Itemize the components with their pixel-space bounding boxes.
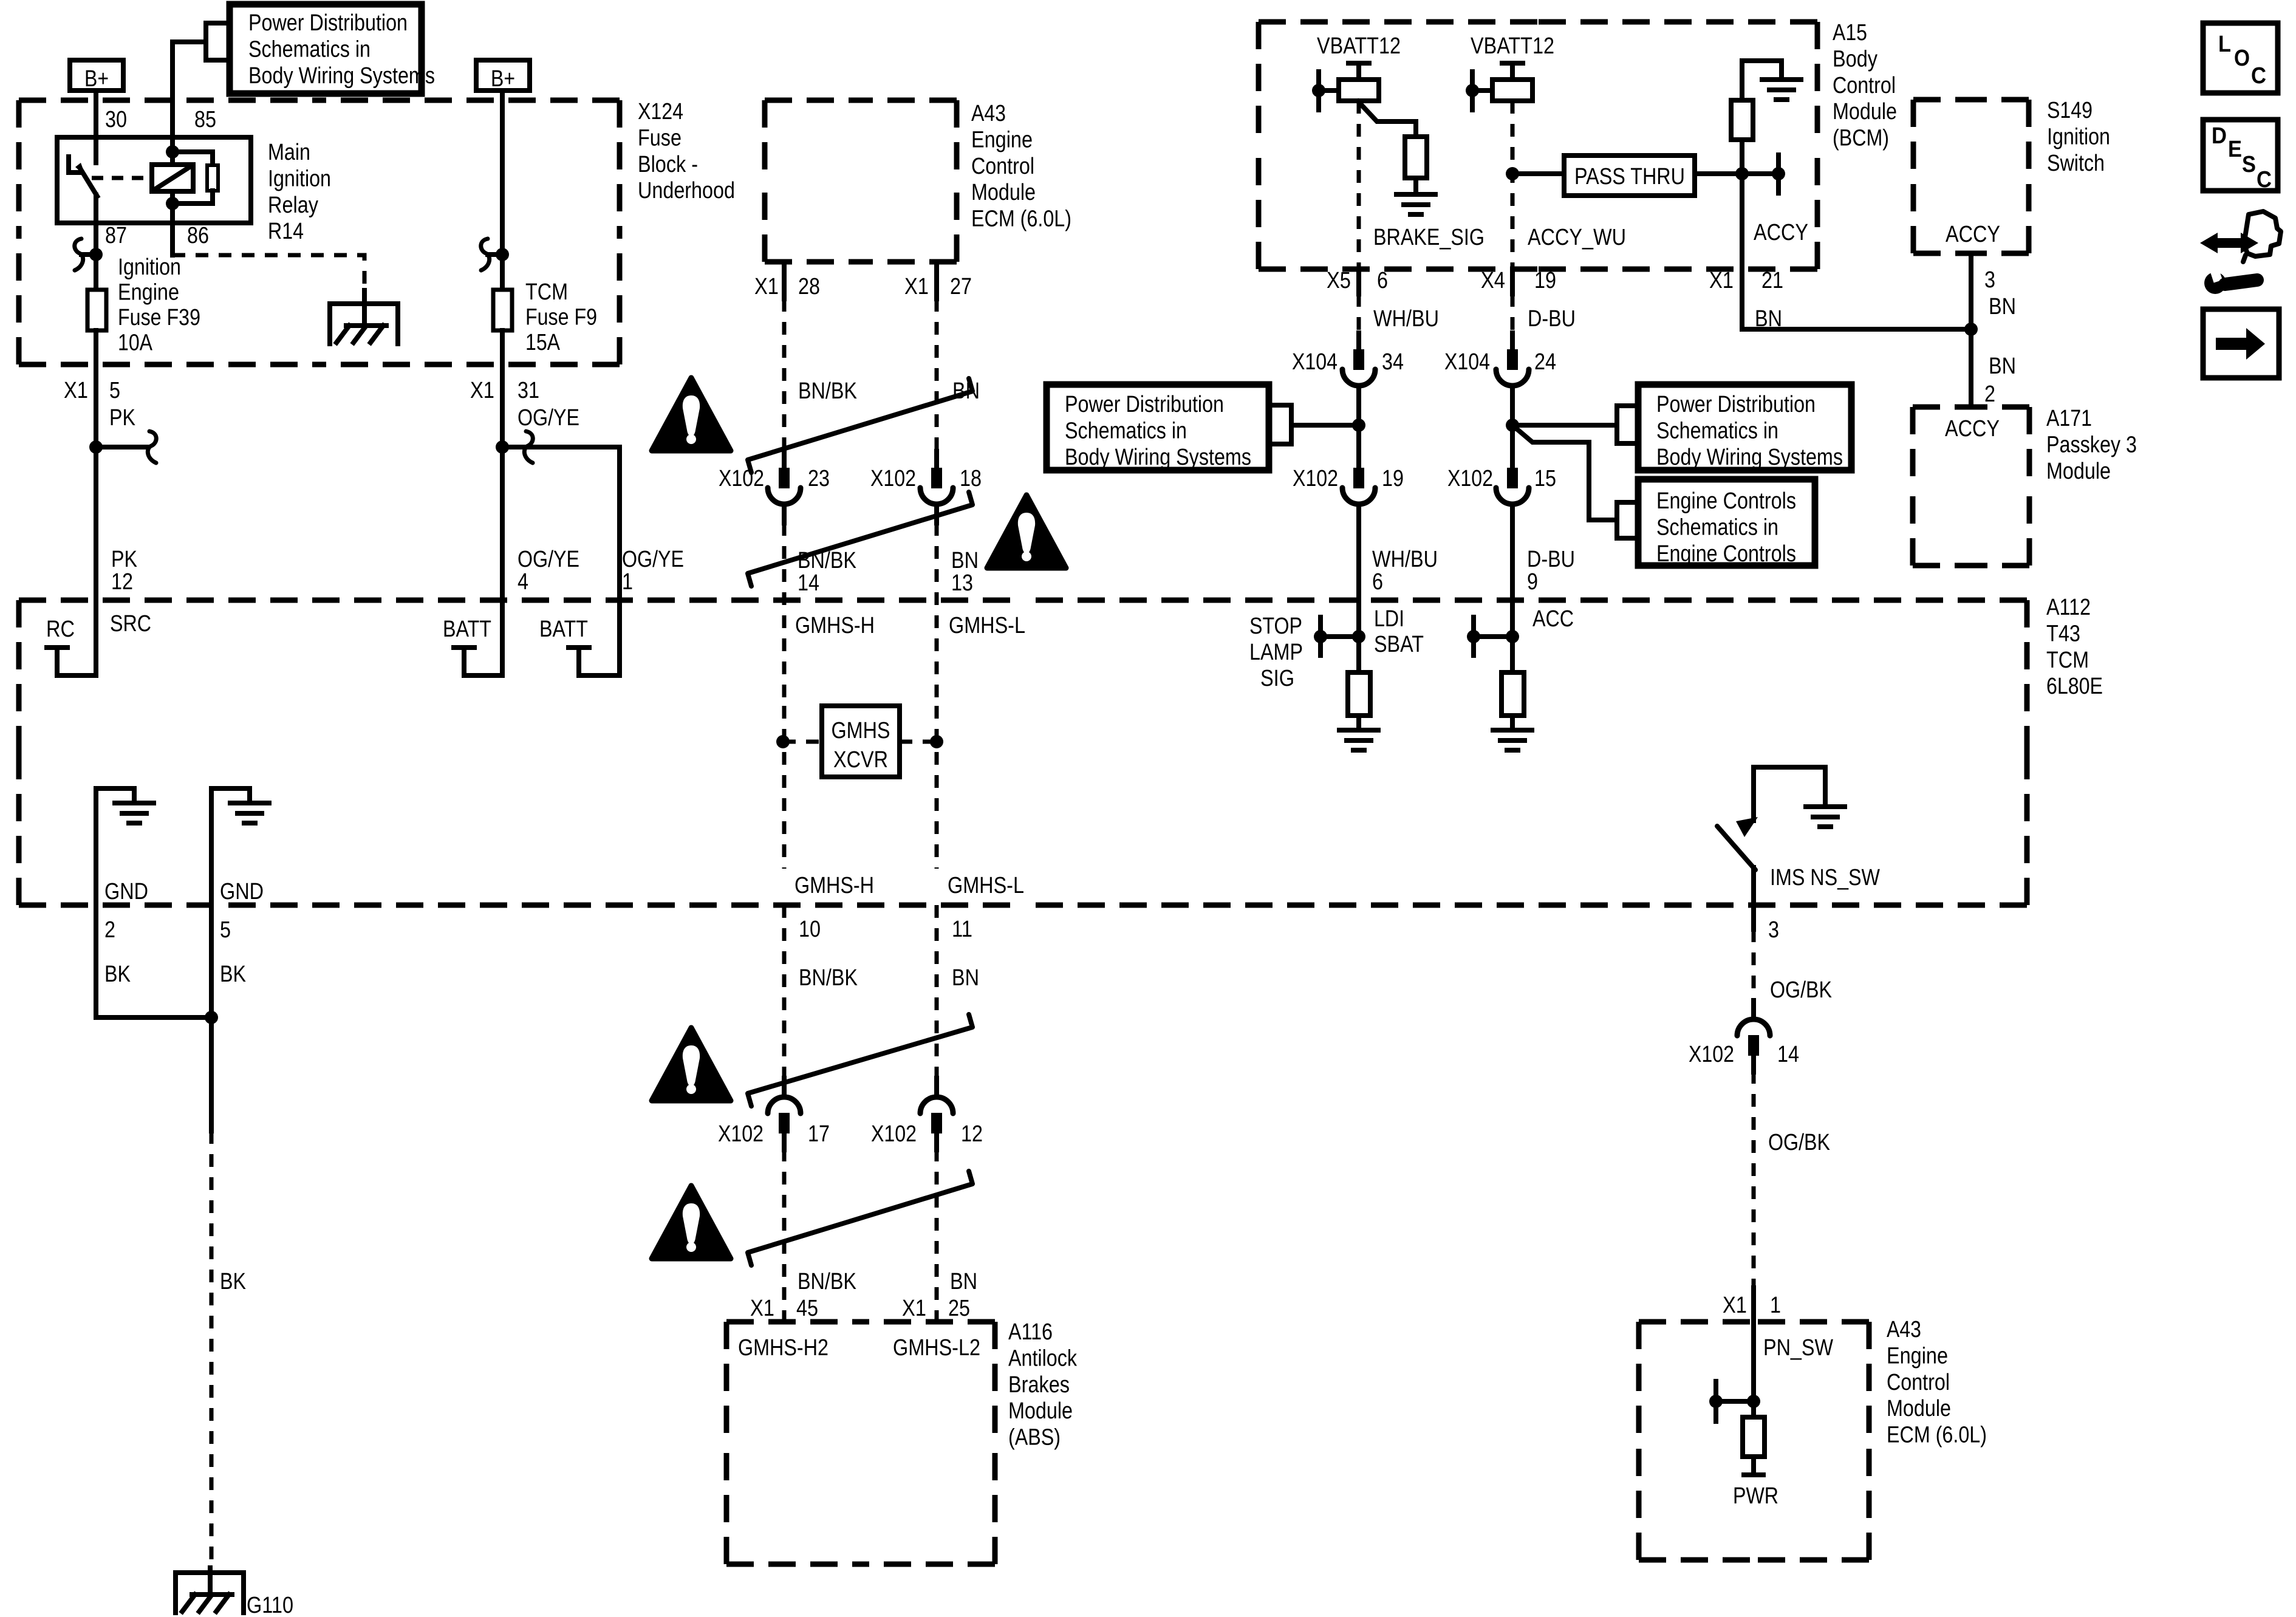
svg-text:13: 13 xyxy=(951,570,973,596)
pin label X1 27 xyxy=(904,274,972,299)
wire label BN (mid) xyxy=(952,965,979,991)
label A171 Passkey 3 Module xyxy=(2046,406,2137,484)
svg-text:Body Wiring Systems: Body Wiring Systems xyxy=(248,63,435,89)
svg-text:Engine Controls: Engine Controls xyxy=(1656,541,1796,567)
ECM A43 dashed box (lower) xyxy=(1639,1322,1869,1560)
svg-text:X102: X102 xyxy=(1689,1042,1734,1067)
pin label X1 25 xyxy=(902,1296,970,1321)
svg-text:Ignition: Ignition xyxy=(2047,124,2110,149)
svg-text:A112: A112 xyxy=(2046,595,2091,620)
in-line connector X102 15 xyxy=(1496,451,1529,523)
junction ACC xyxy=(1506,630,1519,643)
svg-text:11: 11 xyxy=(952,917,972,942)
go-to arrow icon xyxy=(2203,309,2279,378)
svg-text:Module: Module xyxy=(2046,459,2111,484)
svg-text:S149: S149 xyxy=(2047,98,2093,123)
wire OG/YE branch to BATT2 xyxy=(502,447,620,675)
wire LDI resistor to ground xyxy=(1356,716,1361,728)
pin label X102 17 xyxy=(718,1121,830,1147)
svg-text:5: 5 xyxy=(109,378,120,403)
pin label X102 23 xyxy=(719,466,830,491)
wire label D-BU (upper) xyxy=(1528,306,1576,332)
fuse F9 xyxy=(493,290,512,330)
splice clip at fuse F39 xyxy=(81,252,96,257)
svg-text:(BCM): (BCM) xyxy=(1833,126,1889,151)
junction STOP LAMP tap xyxy=(1314,630,1327,643)
pin label X104 34 xyxy=(1292,349,1404,375)
pin label X104 24 xyxy=(1444,349,1556,375)
svg-text:ACCY: ACCY xyxy=(1754,220,1808,245)
svg-text:T43: T43 xyxy=(2046,621,2080,646)
twisted-pair slash third xyxy=(748,1014,972,1106)
resistor (PN_SW) xyxy=(1743,1401,1765,1457)
bracket engine controls box xyxy=(1512,425,1638,538)
ECM A43 dashed box xyxy=(765,100,957,262)
svg-text:PN_SW: PN_SW xyxy=(1763,1335,1833,1361)
svg-text:X102: X102 xyxy=(718,1121,764,1147)
svg-text:Fuse F39: Fuse F39 xyxy=(118,305,200,330)
earth ground (BRAKE_SIG) xyxy=(1396,194,1435,214)
wire label PK 12 xyxy=(111,547,137,595)
junction LDI xyxy=(1352,630,1365,643)
svg-text:X102: X102 xyxy=(1293,466,1338,491)
svg-text:BK: BK xyxy=(104,962,131,987)
node ACC xyxy=(1532,606,1574,632)
wire BK join xyxy=(96,1015,211,1020)
svg-text:18: 18 xyxy=(960,466,982,491)
node LDI SBAT xyxy=(1374,606,1424,657)
wire ACCY inside BCM down xyxy=(1740,174,1744,269)
svg-text:6: 6 xyxy=(1372,569,1383,595)
svg-text:BN/BK: BN/BK xyxy=(799,965,858,991)
note box: Power Distribution Schematics in Body Wiring Systems (top) xyxy=(230,4,435,94)
wire GMHS-H from ECM pin 28 xyxy=(782,262,787,451)
pin label 3 (S149) xyxy=(1984,267,1995,293)
wire GMHS-L to ABS xyxy=(935,1149,939,1322)
svg-text:BK: BK xyxy=(220,1269,246,1294)
chassis ground G110 xyxy=(176,1568,244,1613)
svg-text:27: 27 xyxy=(950,274,972,299)
svg-text:VBATT12: VBATT12 xyxy=(1317,33,1401,59)
svg-text:GND: GND xyxy=(220,879,264,904)
svg-text:23: 23 xyxy=(808,466,830,491)
svg-text:Power Distribution: Power Distribution xyxy=(1656,392,1816,417)
svg-text:Switch: Switch xyxy=(2047,151,2105,176)
svg-text:Schematics in: Schematics in xyxy=(1065,418,1187,443)
fuse block X124 dashed box xyxy=(19,100,620,364)
svg-text:17: 17 xyxy=(808,1121,830,1147)
wire PK fuse F39 to TCM xyxy=(47,330,96,675)
svg-text:6: 6 xyxy=(1377,268,1388,293)
svg-text:10A: 10A xyxy=(118,330,153,356)
resistor (BRAKE_SIG pull) xyxy=(1405,137,1427,178)
svg-text:X1: X1 xyxy=(1709,268,1734,293)
svg-text:Engine Controls: Engine Controls xyxy=(1656,488,1796,514)
earth ground GND5 xyxy=(230,803,269,823)
svg-text:A15: A15 xyxy=(1833,20,1867,46)
svg-text:14: 14 xyxy=(1777,1042,1799,1067)
svg-text:X104: X104 xyxy=(1292,349,1338,375)
junction ACC tap xyxy=(1467,630,1480,643)
node GMHS-H (TCM top) xyxy=(795,613,875,638)
B+ terminal box 1 xyxy=(70,60,123,92)
junction D-BU note xyxy=(1506,419,1519,432)
B+ terminal box 2 xyxy=(476,60,530,92)
svg-text:GMHS-L: GMHS-L xyxy=(948,873,1024,898)
relay switch contact wire pin30 xyxy=(94,137,98,163)
wire BRAKE_SIG inside BCM xyxy=(1357,101,1361,269)
svg-text:Block -: Block - xyxy=(638,152,698,177)
wire relay pin 85 up xyxy=(170,42,175,137)
svg-text:2: 2 xyxy=(1984,381,1995,407)
svg-text:14: 14 xyxy=(798,570,819,596)
svg-text:ACCY: ACCY xyxy=(1945,416,2000,442)
svg-text:Module: Module xyxy=(1833,99,1897,125)
note box: Engine Controls Schematics xyxy=(1638,479,1815,567)
earth ground (IMS) xyxy=(1806,807,1845,827)
svg-text:GMHS-H: GMHS-H xyxy=(794,873,874,898)
relay fixed contact xyxy=(69,157,86,176)
svg-text:15: 15 xyxy=(1534,466,1556,491)
wire GMHS-L from ECM pin 27 xyxy=(934,262,939,451)
svg-text:X4: X4 xyxy=(1481,268,1505,293)
svg-text:24: 24 xyxy=(1534,349,1556,375)
TCM GND wire 2 xyxy=(96,788,134,1017)
wire label BN/BK (ECM) xyxy=(798,378,857,404)
svg-text:D: D xyxy=(2212,123,2227,149)
svg-text:B+: B+ xyxy=(491,66,515,92)
svg-text:D-BU: D-BU xyxy=(1528,306,1576,332)
svg-text:Ignition: Ignition xyxy=(118,255,181,280)
svg-text:GMHS-H2: GMHS-H2 xyxy=(738,1335,829,1361)
label X124 Fuse Block - Underhood xyxy=(638,99,735,203)
wire label BN (ECM) xyxy=(952,378,980,404)
junction ACCY tap xyxy=(1772,167,1785,180)
svg-text:STOP: STOP xyxy=(1249,614,1302,639)
junction ACCY main xyxy=(1735,167,1749,180)
in-line connector X102 14 xyxy=(1737,1000,1770,1072)
wire WH/BU X104 to X102 xyxy=(1356,386,1361,471)
wire resistor to ground xyxy=(1413,178,1418,193)
splice clip on PK branch xyxy=(96,445,147,450)
pin label X102 12 xyxy=(871,1121,983,1147)
svg-text:Module: Module xyxy=(971,180,1036,205)
warning triangle 2 xyxy=(987,495,1066,568)
svg-text:BN/BK: BN/BK xyxy=(798,378,857,404)
junction 87/F39 xyxy=(89,248,103,261)
svg-text:Engine: Engine xyxy=(1887,1343,1948,1369)
junction PN_SW tap xyxy=(1709,1395,1723,1408)
svg-text:BN: BN xyxy=(1989,294,2016,320)
tap stub left of coil right xyxy=(1472,72,1492,110)
vehicle service icon xyxy=(2200,211,2281,294)
tap stub left of coil xyxy=(1319,72,1339,110)
junction BK xyxy=(205,1011,218,1024)
junction B+2/F9 xyxy=(496,248,509,261)
twisted-pair slash fourth xyxy=(748,1171,972,1265)
svg-text:BN: BN xyxy=(952,965,979,991)
fuse F39 xyxy=(87,290,106,330)
svg-text:2: 2 xyxy=(104,917,115,943)
svg-text:C: C xyxy=(2257,167,2272,193)
svg-text:GND: GND xyxy=(104,879,148,904)
junction tap left coil xyxy=(1312,84,1325,97)
wire GMHS-L inside TCM xyxy=(935,706,939,869)
svg-text:VBATT12: VBATT12 xyxy=(1471,33,1554,59)
svg-text:A43: A43 xyxy=(971,101,1006,126)
wire GMHS-H to TCM xyxy=(782,523,787,706)
LOC icon xyxy=(2203,23,2278,93)
earth ground (LDI) xyxy=(1339,730,1378,750)
svg-text:G110: G110 xyxy=(247,1593,293,1617)
relay pin label 86 xyxy=(187,223,209,248)
pin label X4 19 xyxy=(1481,268,1556,293)
node GMHS-L (TCM bottom) xyxy=(948,873,1024,898)
label S149 Ignition Switch xyxy=(2047,98,2110,176)
wire ACC resistor to ground xyxy=(1510,716,1515,728)
svg-text:Brakes: Brakes xyxy=(1008,1372,1070,1398)
svg-text:Antilock: Antilock xyxy=(1008,1345,1078,1371)
svg-text:15A: 15A xyxy=(525,330,561,355)
svg-text:X102: X102 xyxy=(871,1121,917,1147)
node ACCY (S149) xyxy=(1946,222,2000,247)
svg-text:PK: PK xyxy=(109,405,135,431)
in-line connector X104 34 xyxy=(1342,333,1375,405)
wire label BN (ABS) xyxy=(950,1269,977,1294)
driver switch coil left xyxy=(1339,80,1379,101)
node GND (left) xyxy=(104,879,148,904)
svg-text:A43: A43 xyxy=(1887,1317,1921,1342)
net label VBATT12 (left) xyxy=(1317,33,1401,59)
relay coil top wire xyxy=(170,137,175,165)
svg-text:Module: Module xyxy=(1008,1398,1073,1424)
junction OG/YE branch xyxy=(496,440,509,454)
svg-text:12: 12 xyxy=(111,569,133,595)
pin label 5 xyxy=(220,917,231,943)
tap stub STOP LAMP xyxy=(1321,617,1359,655)
net label VBATT12 (right) xyxy=(1471,33,1554,59)
svg-text:BATT: BATT xyxy=(443,617,491,642)
node BATT 1 xyxy=(443,617,491,642)
svg-text:WH/BU: WH/BU xyxy=(1372,547,1438,572)
svg-text:3: 3 xyxy=(1768,917,1779,943)
svg-text:12: 12 xyxy=(961,1121,983,1147)
wire D-BU X102 to TCM xyxy=(1510,504,1515,672)
in-line connector X102 19 xyxy=(1342,451,1375,523)
svg-text:19: 19 xyxy=(1534,268,1556,293)
wire relay 87 down xyxy=(94,223,98,290)
pin label X1 21 xyxy=(1709,268,1783,293)
svg-text:Schematics in: Schematics in xyxy=(248,36,371,62)
svg-text:GMHS: GMHS xyxy=(832,718,890,744)
svg-text:BN/BK: BN/BK xyxy=(798,548,856,573)
svg-text:28: 28 xyxy=(798,274,820,299)
wire resistor to BCM ground xyxy=(1742,61,1782,100)
node ACCY (A171) xyxy=(1945,416,2000,442)
svg-text:O: O xyxy=(2234,46,2250,71)
label A116 Antilock Brakes Module (ABS) xyxy=(1008,1319,1078,1451)
junction WH/BU note xyxy=(1352,419,1365,432)
wire label PK (upper) xyxy=(109,405,135,431)
wire label BN (lower right) xyxy=(1989,354,2016,379)
svg-text:Relay: Relay xyxy=(268,193,318,218)
svg-text:X1: X1 xyxy=(904,274,929,299)
label Main Ignition Relay R14 xyxy=(268,140,331,244)
twisted-pair slash upper xyxy=(748,378,972,473)
resistor (ACCY pull-up) xyxy=(1731,100,1753,174)
relay coil bottom wire xyxy=(170,191,175,223)
relay pin label 85 xyxy=(194,107,216,132)
junction BN xyxy=(1964,323,1978,336)
svg-text:BATT: BATT xyxy=(539,617,588,642)
svg-text:85: 85 xyxy=(194,107,216,132)
svg-text:X1: X1 xyxy=(470,378,494,403)
wire label BK (left) xyxy=(104,962,131,987)
pin label X1 31 xyxy=(470,378,539,403)
svg-text:A116: A116 xyxy=(1008,1319,1053,1345)
label A15 Body Control Module (BCM) xyxy=(1833,20,1897,151)
svg-text:30: 30 xyxy=(105,107,127,132)
ABS module dashed box xyxy=(726,1322,995,1564)
svg-text:3: 3 xyxy=(1984,267,1995,293)
wire PASS THRU to ACCY xyxy=(1695,171,1742,176)
wire relay 86 to ground xyxy=(173,223,364,303)
label Ignition Engine Fuse F39 10A xyxy=(118,255,200,356)
pin label X102 14 xyxy=(1689,1042,1799,1067)
wire label BN 13 xyxy=(951,548,979,596)
svg-text:4: 4 xyxy=(518,569,528,595)
svg-text:Power Distribution: Power Distribution xyxy=(248,10,408,36)
svg-text:RC: RC xyxy=(46,617,75,642)
node PN_SW xyxy=(1763,1335,1833,1361)
svg-text:Engine: Engine xyxy=(971,127,1033,152)
svg-text:X5: X5 xyxy=(1327,268,1351,293)
node RC xyxy=(46,617,75,642)
svg-text:BN: BN xyxy=(950,1269,977,1294)
relay pin label 30 xyxy=(105,107,127,132)
in-line connector X102 18 xyxy=(920,451,953,523)
label G110 xyxy=(247,1593,293,1617)
junction ACCY_WU / PASS THRU xyxy=(1506,167,1519,180)
junction tap right coil xyxy=(1466,84,1479,97)
svg-text:OG/YE: OG/YE xyxy=(518,547,579,572)
svg-text:86: 86 xyxy=(187,223,209,248)
node GMHS-L2 xyxy=(893,1335,980,1361)
wire label BN/BK (ABS) xyxy=(798,1269,856,1294)
wire OG/YE fuse F9 down xyxy=(454,330,502,675)
VBATT12 feed symbol right xyxy=(1502,63,1523,80)
VBATT12 feed symbol left xyxy=(1348,63,1369,80)
splice clip on OG/YE branch xyxy=(524,431,533,463)
svg-text:1: 1 xyxy=(1770,1293,1781,1318)
wire label WH/BU (mid) xyxy=(1372,547,1438,595)
svg-text:BN: BN xyxy=(1989,354,2016,379)
svg-text:PK: PK xyxy=(111,547,137,572)
wire GMHS-H to ABS xyxy=(782,1149,787,1322)
wire B+1 to relay pin 30 xyxy=(94,91,98,137)
svg-text:Control: Control xyxy=(1887,1370,1950,1395)
svg-text:TCM: TCM xyxy=(525,279,568,305)
svg-text:R14: R14 xyxy=(268,219,304,244)
svg-text:34: 34 xyxy=(1382,349,1404,375)
wire GMHS-L to TCM xyxy=(935,523,939,706)
svg-text:ECM (6.0L): ECM (6.0L) xyxy=(971,207,1071,232)
wire WH/BU BCM to X104 xyxy=(1356,269,1361,331)
wire GMHS-H TCM to X102-17 xyxy=(782,905,787,1078)
DESC icon xyxy=(2203,120,2278,193)
wire label OG/YE (upper) xyxy=(518,405,579,431)
svg-text:A171: A171 xyxy=(2046,406,2092,431)
node GMHS-L (TCM top) xyxy=(949,613,1025,638)
svg-text:Body Wiring Systems: Body Wiring Systems xyxy=(1065,445,1251,470)
earth ground (ACC) xyxy=(1493,730,1532,750)
wire GMHS-L TCM to X102-12 xyxy=(935,905,939,1078)
in-line connector X102 12 xyxy=(920,1078,953,1150)
svg-text:9: 9 xyxy=(1527,569,1538,595)
svg-text:LAMP: LAMP xyxy=(1249,640,1303,665)
wire ACCY_WU inside BCM xyxy=(1511,101,1515,269)
wire label OG/YE 4 xyxy=(518,547,579,595)
svg-text:X1: X1 xyxy=(902,1296,926,1321)
svg-text:Schematics in: Schematics in xyxy=(1656,418,1778,443)
GMHS XCVR box xyxy=(822,706,900,777)
svg-text:Schematics in: Schematics in xyxy=(1656,514,1778,540)
label STOP LAMP SIG xyxy=(1249,614,1303,691)
wire label BN/BK 14 xyxy=(798,548,856,596)
svg-text:OG/YE: OG/YE xyxy=(622,547,684,572)
svg-text:BK: BK xyxy=(220,962,246,987)
wire D-BU X104 to X102 xyxy=(1510,386,1515,471)
junction GMHS-L / XCVR xyxy=(930,735,943,748)
warning triangle 1 xyxy=(652,378,731,451)
wire BN BCM down xyxy=(1742,269,1971,329)
label TCM Fuse F9 15A xyxy=(525,279,597,355)
earth ground GND2 xyxy=(115,803,154,823)
bracket note box to WH/BU xyxy=(1269,405,1359,444)
svg-text:X1: X1 xyxy=(1723,1293,1747,1318)
svg-text:ACCY_WU: ACCY_WU xyxy=(1528,225,1626,250)
note box: Power Distribution (right) xyxy=(1638,385,1851,470)
svg-text:10: 10 xyxy=(799,917,821,942)
label A43 Engine Control Module ECM (6.0L) (lower) xyxy=(1887,1317,1987,1448)
resistor (ACC) xyxy=(1502,672,1524,716)
svg-text:OG/BK: OG/BK xyxy=(1768,1130,1830,1155)
svg-text:SIG: SIG xyxy=(1260,666,1294,691)
node SRC xyxy=(110,611,151,637)
driver switch coil right xyxy=(1492,80,1532,101)
svg-text:Control: Control xyxy=(1833,73,1896,98)
stub GMHS XCVR left xyxy=(783,740,822,744)
relay coil xyxy=(152,165,193,191)
wire OG/BK TCM to X102 xyxy=(1751,905,1756,1019)
pin label X102 18 xyxy=(870,466,982,491)
svg-text:X104: X104 xyxy=(1444,349,1490,375)
svg-text:L: L xyxy=(2218,32,2231,57)
TCM A112 dashed box xyxy=(19,600,2027,905)
pull-down branch to resistor xyxy=(1358,101,1416,137)
svg-text:21: 21 xyxy=(1761,268,1783,293)
TCM GND wire 5 xyxy=(211,788,250,1131)
tap stub right of ACCY xyxy=(1742,155,1778,193)
warning triangle 4 xyxy=(652,1186,731,1259)
svg-text:PWR: PWR xyxy=(1733,1483,1778,1509)
svg-text:SRC: SRC xyxy=(110,611,151,637)
svg-text:X102: X102 xyxy=(1447,466,1493,491)
svg-text:GMHS-H: GMHS-H xyxy=(795,613,875,638)
svg-text:WH/BU: WH/BU xyxy=(1373,306,1439,332)
svg-text:X102: X102 xyxy=(870,466,916,491)
svg-text:OG/YE: OG/YE xyxy=(518,405,579,431)
